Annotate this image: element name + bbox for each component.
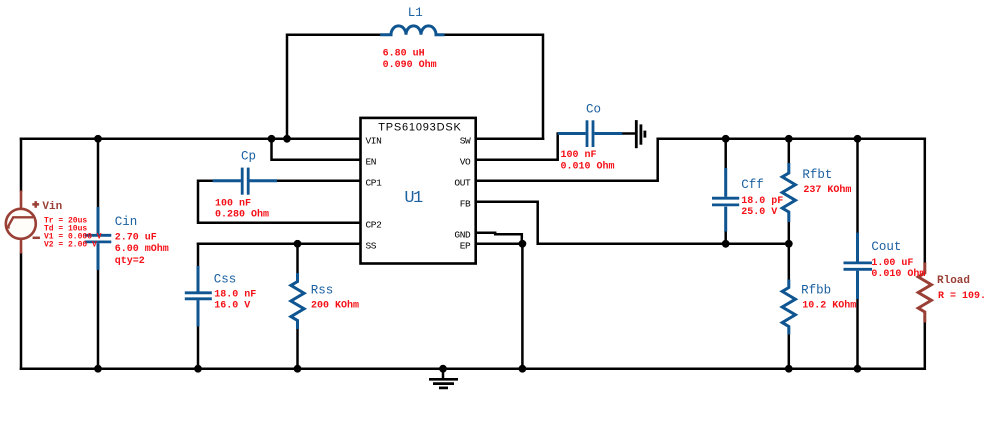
svg-text:L1: L1 bbox=[408, 6, 423, 20]
svg-text:Cff: Cff bbox=[741, 178, 764, 192]
svg-text:6.00 mOhm: 6.00 mOhm bbox=[115, 243, 169, 255]
svg-text:Cin: Cin bbox=[115, 215, 138, 229]
svg-text:V2 = 2.00 V: V2 = 2.00 V bbox=[44, 241, 97, 250]
svg-text:CP1: CP1 bbox=[366, 177, 383, 188]
svg-text:Vin: Vin bbox=[42, 201, 62, 213]
svg-text:R = 109.: R = 109. bbox=[938, 291, 984, 302]
svg-text:0.090 Ohm: 0.090 Ohm bbox=[383, 59, 437, 71]
svg-text:10.2 KOhm: 10.2 KOhm bbox=[802, 300, 856, 312]
svg-text:EP: EP bbox=[460, 240, 471, 251]
svg-text:Rss: Rss bbox=[311, 283, 334, 297]
svg-text:Rfbt: Rfbt bbox=[802, 168, 832, 182]
svg-text:18.0 pF: 18.0 pF bbox=[741, 196, 783, 207]
svg-text:Cout: Cout bbox=[871, 240, 901, 254]
svg-text:0.010 Ohm: 0.010 Ohm bbox=[871, 268, 925, 280]
svg-text:VO: VO bbox=[460, 156, 471, 167]
svg-text:100 nF: 100 nF bbox=[561, 150, 597, 161]
svg-text:Co: Co bbox=[586, 103, 601, 117]
svg-text:25.0 V: 25.0 V bbox=[741, 207, 777, 218]
svg-text:TPS61093DSK: TPS61093DSK bbox=[378, 122, 461, 134]
svg-text:16.0 V: 16.0 V bbox=[214, 301, 250, 312]
svg-text:237 KOhm: 237 KOhm bbox=[803, 184, 851, 196]
svg-text:U1: U1 bbox=[404, 189, 423, 208]
svg-text:OUT: OUT bbox=[454, 177, 471, 188]
svg-text:Css: Css bbox=[214, 273, 237, 287]
svg-text:VIN: VIN bbox=[366, 135, 382, 146]
svg-text:6.80 uH: 6.80 uH bbox=[383, 49, 425, 60]
svg-text:SW: SW bbox=[460, 135, 471, 146]
svg-text:1.00 uF: 1.00 uF bbox=[871, 258, 913, 269]
svg-text:FB: FB bbox=[460, 198, 471, 209]
svg-text:GND: GND bbox=[454, 229, 471, 240]
svg-text:0.010 Ohm: 0.010 Ohm bbox=[561, 160, 615, 172]
svg-text:2.70 uF: 2.70 uF bbox=[115, 233, 157, 244]
svg-text:qty=2: qty=2 bbox=[115, 256, 145, 267]
svg-text:200 KOhm: 200 KOhm bbox=[311, 300, 359, 312]
svg-text:CP2: CP2 bbox=[366, 219, 383, 230]
svg-text:Rfbb: Rfbb bbox=[801, 284, 831, 298]
svg-text:0.280 Ohm: 0.280 Ohm bbox=[215, 209, 269, 221]
svg-text:18.0 nF: 18.0 nF bbox=[214, 290, 256, 301]
svg-text:100 nF: 100 nF bbox=[215, 198, 251, 209]
svg-text:SS: SS bbox=[366, 240, 377, 251]
svg-text:Rload: Rload bbox=[937, 275, 970, 287]
svg-text:EN: EN bbox=[366, 156, 377, 167]
svg-text:Cp: Cp bbox=[241, 149, 256, 163]
